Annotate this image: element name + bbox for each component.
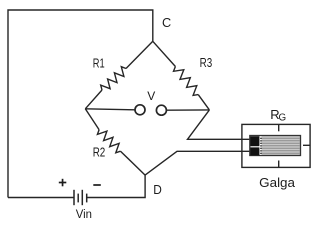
strain gauge right tick [303, 144, 310, 146]
svg-text:C: C [162, 15, 171, 30]
resistor R3 [174, 67, 199, 96]
strain gauge white strip between tabs and grid [259, 136, 261, 155]
voltmeter terminal circle left [135, 105, 145, 115]
wire right vertex to gauge upper lead [188, 110, 252, 139]
svg-text:Vin: Vin [76, 207, 92, 221]
wire left vertex to R2 [85, 109, 99, 130]
resistor R1 [101, 67, 126, 90]
svg-text:G: G [279, 113, 287, 124]
battery minus sign [93, 184, 101, 186]
battery Vin plates [74, 190, 87, 205]
wire R3 to right vertex [198, 95, 209, 110]
strain gauge grid line end nubs [260, 138, 262, 154]
strain gauge solder tab upper [250, 136, 259, 146]
resistor R2 [97, 130, 120, 153]
svg-text:D: D [153, 182, 162, 197]
svg-text:R1: R1 [93, 55, 105, 70]
battery plus sign [59, 179, 67, 187]
svg-text:Galga: Galga [259, 175, 296, 190]
wire voltmeter terminal to right vertex [167, 109, 210, 111]
wire bottom right from battery to node D riser [87, 175, 145, 197]
wire outer loop: left / top / down to node C [8, 10, 153, 198]
strain gauge outline box [242, 124, 310, 167]
wire arm C to R3 [153, 41, 176, 66]
wire gauge lower lead to node D [145, 151, 251, 175]
wire arm C to R1 [126, 41, 153, 68]
wire bottom left from loop to battery [8, 197, 74, 199]
wire left vertex to voltmeter terminal [85, 109, 135, 110]
wire R2 to node D [121, 151, 146, 175]
strain gauge top tick [278, 124, 280, 131]
svg-text:R3: R3 [200, 55, 213, 70]
wire R1 to left vertex [85, 90, 102, 109]
strain gauge bottom tick [278, 161, 280, 168]
strain gauge foil grid body [250, 136, 301, 156]
strain gauge grid lines [261, 138, 300, 153]
strain gauge solder tab lower [250, 148, 259, 156]
voltmeter terminal circle right [156, 105, 166, 115]
svg-text:V: V [147, 89, 155, 103]
svg-text:R2: R2 [93, 144, 106, 159]
